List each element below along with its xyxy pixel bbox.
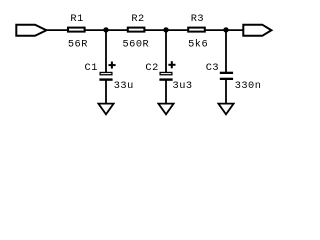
resistor R2 bbox=[128, 28, 145, 32]
capacitor C3 bottom plate bbox=[220, 78, 233, 80]
wire C2 to ground bbox=[165, 80, 167, 104]
right connector OUT tag bbox=[243, 25, 271, 36]
left connector IN tag bbox=[16, 25, 46, 36]
value 330n bbox=[235, 80, 262, 92]
resistor R3 bbox=[188, 28, 205, 32]
capacitor C3 top plate bbox=[220, 72, 233, 74]
value 3u3 bbox=[173, 80, 193, 92]
label C2 bbox=[145, 62, 158, 74]
ground symbol 2 bbox=[158, 104, 173, 115]
svg-text:R2: R2 bbox=[131, 13, 144, 25]
wire node C to C3 bbox=[225, 30, 227, 73]
label R1 bbox=[70, 13, 83, 25]
junction node B bbox=[163, 27, 168, 32]
wire node B to C2 bbox=[165, 30, 167, 73]
junction node C bbox=[223, 27, 228, 32]
wire from R1 to R2 bbox=[84, 29, 128, 31]
value 56R bbox=[68, 39, 88, 51]
capacitor C1 positive plate bbox=[100, 72, 112, 74]
capacitor C1 negative plate bbox=[99, 78, 112, 80]
svg-text:R3: R3 bbox=[191, 13, 204, 25]
wire C1 to ground bbox=[105, 80, 107, 104]
wire C3 to ground bbox=[225, 79, 227, 104]
svg-text:33u: 33u bbox=[114, 80, 134, 92]
svg-text:330n: 330n bbox=[235, 80, 262, 92]
svg-text:560R: 560R bbox=[123, 39, 150, 51]
svg-text:C1: C1 bbox=[85, 62, 98, 74]
capacitor C2 positive plate bbox=[160, 72, 172, 74]
wire from R2 to R3 bbox=[144, 29, 189, 31]
junction node A bbox=[103, 27, 108, 32]
label C3 bbox=[206, 62, 219, 74]
svg-text:3u3: 3u3 bbox=[173, 80, 193, 92]
svg-text:C3: C3 bbox=[206, 62, 219, 74]
svg-text:5k6: 5k6 bbox=[188, 39, 208, 51]
wire from left connector to R1 bbox=[45, 29, 69, 31]
svg-text:R1: R1 bbox=[70, 13, 83, 25]
value 560R bbox=[123, 39, 150, 51]
wire from R3 to right connector bbox=[205, 29, 245, 31]
wire node A to C1 bbox=[105, 30, 107, 73]
svg-text:C2: C2 bbox=[145, 62, 158, 74]
ground symbol 3 bbox=[218, 104, 233, 115]
capacitor C1 plus sign bbox=[109, 62, 116, 69]
capacitor C2 negative plate bbox=[159, 78, 172, 80]
svg-text:56R: 56R bbox=[68, 39, 88, 51]
label C1 bbox=[85, 62, 98, 74]
value 5k6 bbox=[188, 39, 208, 51]
resistor R1 bbox=[68, 28, 85, 32]
ground symbol 1 bbox=[98, 104, 113, 115]
value 33u bbox=[114, 80, 134, 92]
label R3 bbox=[191, 13, 204, 25]
label R2 bbox=[131, 13, 144, 25]
capacitor C2 plus sign bbox=[168, 61, 175, 68]
